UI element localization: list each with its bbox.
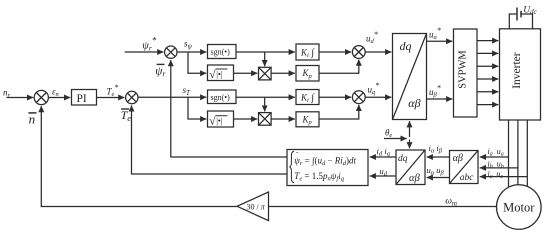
svg-text:sgn(•): sgn(•) <box>211 48 231 57</box>
node summing junction S1 <box>34 90 48 104</box>
label u-beta-star <box>429 83 441 98</box>
svg-text:Kp: Kp <box>302 114 313 126</box>
block gain 30/pi triangle <box>237 192 269 221</box>
wire sgn flux drop to multiplier flux <box>264 52 266 66</box>
svg-text:|•|: |•| <box>216 69 223 79</box>
wire SVPWM to inverter 2 <box>477 52 498 54</box>
svg-text:sT: sT <box>183 85 192 97</box>
wire id iq to estimator <box>370 156 396 158</box>
estimator equation line2 <box>294 171 344 183</box>
wire ud to estimator <box>370 175 396 177</box>
wire tap ia ua <box>480 156 509 158</box>
label alphabeta upper <box>408 96 420 110</box>
block PI <box>72 90 97 106</box>
block sqrt flux <box>208 65 234 81</box>
wire u-beta to SVPWM <box>427 98 453 100</box>
label Kp torque <box>302 114 313 126</box>
svg-text:ψr: ψr <box>155 65 166 78</box>
label Udc <box>523 5 537 16</box>
label psi-r-star <box>142 36 156 53</box>
wire speed feedback to S1 <box>41 106 237 206</box>
battery long plate <box>516 8 518 21</box>
wire theta-e input <box>384 138 407 140</box>
label uq-star <box>368 81 380 96</box>
label nr <box>3 88 11 100</box>
svg-text:uα uβ: uα uβ <box>427 165 445 177</box>
label PI <box>77 93 87 105</box>
block dq-alphabeta upper <box>393 34 427 120</box>
block sgn torque <box>208 90 237 104</box>
label SVPWM <box>457 50 468 89</box>
svg-text:sgn(•): sgn(•) <box>211 93 231 102</box>
wire sgn flux to Ki flux <box>236 51 295 53</box>
label sgn torque <box>211 93 231 102</box>
svg-text:ψr*: ψr* <box>142 36 156 53</box>
svg-text:εn: εn <box>52 87 59 99</box>
block multiplier flux <box>259 67 272 80</box>
label Te-star <box>107 83 119 98</box>
label Kp flux <box>302 68 313 80</box>
wire sgn torque drop to multiplier torque <box>264 97 266 111</box>
label dq lower <box>398 154 408 164</box>
wire S1 to PI <box>48 97 70 99</box>
svg-text:icuc: icuc <box>488 169 504 180</box>
wire multiplier flux to Kp flux <box>271 72 295 74</box>
wire flux feedback from estimator <box>171 60 287 157</box>
wire S3 to sgn flux <box>177 51 206 53</box>
wire S2 to sgn torque <box>138 96 206 98</box>
svg-text:Te = 1.5pnψfiq: Te = 1.5pnψfiq <box>294 171 344 183</box>
node summing junction S2 <box>126 91 138 103</box>
label Ki torque <box>300 92 315 104</box>
svg-text:αβ: αβ <box>453 153 463 164</box>
node summing junction S3 flux <box>165 46 177 58</box>
svg-text:Motor: Motor <box>503 201 535 215</box>
label s-T <box>183 85 192 97</box>
label Inverter <box>511 52 523 89</box>
block alphabeta-abc <box>450 151 479 184</box>
wire sgn torque to Ki torque <box>236 96 295 98</box>
label s-psi <box>184 39 193 51</box>
wire phase a down <box>508 120 510 189</box>
wire battery left leg <box>509 14 516 29</box>
svg-text:Te: Te <box>121 108 132 123</box>
svg-text:ωm: ωm <box>445 197 457 208</box>
wire S4 to dq block <box>365 51 391 53</box>
label theta-e <box>385 127 392 139</box>
wire S5 to dq block <box>365 96 391 98</box>
svg-text:sψ: sψ <box>184 39 193 51</box>
svg-text:Udc: Udc <box>523 5 537 16</box>
label Ki flux <box>300 47 315 59</box>
label u-alpha u-beta <box>427 165 445 177</box>
wire u-alphabeta to lower dq <box>427 177 450 179</box>
wire Kp torque up to S5 <box>319 105 359 119</box>
svg-text:iaua: iaua <box>488 147 504 158</box>
svg-text:uq*: uq* <box>368 81 380 96</box>
label sgn flux <box>211 48 231 57</box>
svg-text:iα iβ: iα iβ <box>429 143 443 155</box>
wire theta-e vertical to both dq blocks <box>409 121 411 148</box>
wire SVPWM to inverter 6 <box>477 104 498 106</box>
label psi-r-bar feedback <box>155 64 166 78</box>
wire battery right leg <box>521 14 532 29</box>
label abc <box>460 173 475 183</box>
wire multiplier torque to Kp torque <box>271 118 295 120</box>
wire tap ib ub <box>480 167 518 169</box>
label omega-m <box>445 197 457 208</box>
label 30/pi <box>247 203 266 212</box>
svg-text:ud*: ud* <box>366 30 378 45</box>
block estimator <box>287 150 368 186</box>
node summing junction S4 <box>352 46 365 59</box>
wire phase b down <box>517 120 519 186</box>
svg-text:dq: dq <box>400 39 412 53</box>
wire SVPWM to inverter 3 <box>477 65 498 67</box>
wire Ki torque to S5 <box>319 96 351 98</box>
wire tap ic uc <box>480 176 528 178</box>
label en error <box>52 87 59 99</box>
label Te-bar feedback <box>121 108 132 123</box>
svg-text:uβ*: uβ* <box>429 83 441 98</box>
node summing junction S5 <box>352 91 365 104</box>
svg-text:|•|: |•| <box>216 116 223 126</box>
wire flux branch to sqrt <box>188 52 206 73</box>
svg-text:uα*: uα* <box>429 26 441 41</box>
svg-text:θe: θe <box>385 127 392 139</box>
wire torque feedback from estimator <box>132 105 288 174</box>
svg-text:n: n <box>29 112 35 127</box>
wire Kp flux up to S4 <box>319 60 359 74</box>
label alphabeta lower <box>409 173 421 184</box>
wire flux ref input <box>125 51 164 53</box>
block multiplier torque <box>259 113 272 126</box>
wire SVPWM to inverter 4 <box>477 78 498 80</box>
svg-text:SVPWM: SVPWM <box>457 50 468 89</box>
wire SVPWM to inverter 5 <box>477 91 498 93</box>
svg-text:αβ: αβ <box>408 96 420 110</box>
svg-text:idiq: idiq <box>377 146 391 158</box>
motor M1 <box>497 185 542 230</box>
wire PI to S2 <box>97 97 125 99</box>
label u-alpha-star <box>429 26 441 41</box>
block Kp torque <box>296 112 319 127</box>
label i-alpha i-beta <box>429 143 443 155</box>
svg-text:Te*: Te* <box>107 83 119 98</box>
wire motor speed to gain triangle <box>269 206 497 208</box>
block Kp flux <box>296 66 319 82</box>
label sqrt torque <box>209 115 227 128</box>
svg-text:αβ: αβ <box>409 173 421 184</box>
wire phase c down <box>526 120 528 188</box>
label ia ua <box>488 147 504 158</box>
block sqrt torque <box>208 111 234 127</box>
label dq upper <box>400 39 412 53</box>
label ud lower <box>380 166 388 178</box>
block SVPWM <box>454 29 478 117</box>
block Ki torque <box>296 90 319 105</box>
label n-bar feedback <box>28 112 36 127</box>
block Ki flux <box>296 44 319 60</box>
label ic uc <box>488 169 504 180</box>
wire torque branch to sqrt <box>188 97 206 119</box>
label Motor <box>503 201 535 215</box>
svg-text:abc: abc <box>460 173 475 183</box>
svg-text:PI: PI <box>77 93 87 105</box>
svg-text:nr: nr <box>3 88 11 100</box>
block Inverter <box>500 29 541 120</box>
label alphabeta abc-block <box>453 153 463 164</box>
svg-text:Inverter: Inverter <box>511 52 523 89</box>
label ud-star <box>366 30 378 45</box>
block sgn flux <box>208 45 237 59</box>
label ib ub <box>488 159 504 170</box>
label id iq <box>377 146 391 158</box>
wire nr input <box>7 97 34 99</box>
wire u-alpha to SVPWM <box>427 40 453 42</box>
wire Ki flux to S4 <box>319 51 351 53</box>
block dq-alphabeta lower <box>396 150 425 185</box>
svg-text:30 / π: 30 / π <box>247 203 266 212</box>
svg-text:Ki ∫: Ki ∫ <box>300 92 315 104</box>
battery short plate <box>520 11 522 18</box>
wire sqrt flux to multiplier flux <box>234 72 258 74</box>
estimator equation brace <box>290 151 294 182</box>
svg-text:Ki ∫: Ki ∫ <box>300 47 315 59</box>
svg-text:Kp: Kp <box>302 68 313 80</box>
label sqrt flux <box>209 68 227 81</box>
wire sqrt torque to multiplier torque <box>234 118 258 120</box>
svg-text:dq: dq <box>398 154 408 164</box>
estimator equation line1 <box>294 151 356 167</box>
wire i-alphabeta to lower dq <box>427 156 450 158</box>
wire SVPWM to inverter 1 <box>477 40 498 42</box>
svg-text:ψr = ∫(ud − Rid)dt: ψr = ∫(ud − Rid)dt <box>294 155 356 167</box>
